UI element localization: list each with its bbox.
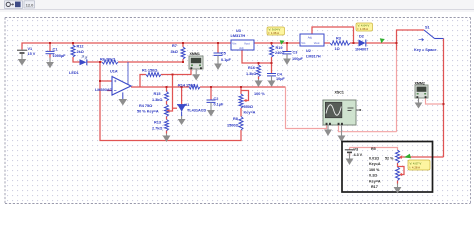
resistor R7 (171, 44, 186, 59)
svg-text:TL431ACD: TL431ACD (187, 108, 206, 112)
wire V3 bottom lead (349, 153, 351, 157)
op-amp U1A (95, 62, 131, 99)
wire R19 240ohm leads (271, 43, 273, 45)
resistor R6 (100, 58, 118, 65)
svg-text:R4 75Ω: R4 75Ω (139, 104, 152, 108)
resistor R14 (in rail) (178, 83, 200, 89)
svg-text:U3: U3 (236, 29, 241, 33)
ground arrow under C3 (283, 54, 291, 65)
wire scope channel A branch (286, 87, 327, 129)
resistor R3 (330, 37, 350, 52)
potentiometer R5 (369, 147, 400, 166)
ground under V1 (18, 54, 27, 66)
capacitor C2 (207, 97, 224, 107)
svg-text:C5: C5 (221, 52, 226, 56)
svg-text:2kΩ: 2kΩ (77, 50, 84, 54)
regulator U2 LM317H (300, 34, 324, 59)
svg-text:100µF: 100µF (292, 57, 304, 61)
ground arrow under TL431 (178, 116, 186, 125)
wire R5 to R17 link (397, 163, 399, 167)
battery V3 (345, 148, 363, 157)
regulator U3 LM317H (231, 29, 255, 50)
switch S1 (414, 26, 444, 53)
svg-text:D2: D2 (359, 35, 364, 39)
svg-text:4.3 V: 4.3 V (354, 153, 363, 157)
capacitor C4 (267, 72, 285, 81)
oscilloscope XSC1 (323, 91, 361, 126)
grid dots (decorative) (6, 19, 470, 203)
svg-text:I: 1.06 A: I: 1.06 A (358, 27, 369, 31)
svg-text:LM317H: LM317H (231, 34, 246, 38)
wire divider chain R15/R4/R13 (166, 87, 168, 92)
capacitor C1 (46, 48, 67, 59)
schematic sheet dashed border (5, 18, 471, 204)
wire top supply rail V1 to U3 Vin (22, 43, 231, 50)
svg-text:R5: R5 (371, 147, 376, 151)
svg-text:Key=A: Key=A (369, 179, 381, 183)
svg-text:V1: V1 (28, 47, 33, 51)
svg-text:R12: R12 (77, 45, 84, 49)
ground arrow under R16 (255, 79, 263, 87)
svg-text:C3: C3 (293, 51, 298, 55)
wire node B riser (D2 node down to scope B) (396, 43, 398, 50)
svg-text:R17: R17 (371, 185, 378, 189)
capacitor C5 (214, 52, 232, 63)
svg-text:Adj: Adj (239, 46, 243, 50)
junction dots (49, 42, 51, 44)
svg-text:R13: R13 (154, 121, 161, 125)
svg-text:C1: C1 (53, 48, 58, 52)
svg-text:1.3kΩ: 1.3kΩ (246, 72, 256, 76)
wire switch S1 output drop to load (443, 39, 445, 158)
battery V1 (17, 47, 36, 56)
svg-text:1.3kΩ: 1.3kΩ (152, 98, 162, 102)
svg-text:XSC1: XSC1 (335, 91, 344, 95)
wire rail U3 Vout to U2 Vin (254, 42, 300, 44)
wire R17 bottom lead (397, 181, 399, 184)
wire C3 lead (286, 43, 288, 51)
svg-text:0.01Ω: 0.01Ω (369, 157, 379, 161)
ground under R13 chain (163, 134, 171, 143)
svg-text:I: 4.28 A: I: 4.28 A (410, 166, 421, 170)
multimeter XMM2 (415, 81, 429, 98)
ground arrow under V3 (346, 153, 354, 165)
wire C2 lead (210, 87, 212, 100)
ground arrow under XMM1 (192, 69, 200, 81)
wire U3 Adj rail (242, 50, 272, 63)
resistor R13 (152, 120, 169, 131)
svg-text:100 %: 100 % (369, 168, 380, 172)
svg-text:1N4007: 1N4007 (355, 48, 368, 52)
wire R17 rheostat loop (398, 167, 405, 175)
ground arrow under scope A (324, 125, 332, 136)
svg-text:C2: C2 (214, 97, 219, 101)
wire R1 feedback net (140, 75, 146, 88)
svg-text:V3: V3 (354, 148, 359, 152)
wire XMM1 plus terminal to R1 net (173, 69, 192, 75)
wire C5 lead (217, 43, 219, 53)
wire R6 to R7 node (118, 61, 183, 63)
svg-text:U1: U1 (185, 103, 190, 107)
resistor R16 (246, 65, 261, 77)
capacitor C3 (283, 51, 304, 61)
wire R12 leads and LED branch (72, 43, 74, 45)
svg-text:Key=A: Key=A (244, 110, 256, 114)
svg-text:R15: R15 (154, 92, 161, 96)
wire op-amp inverting input stub (107, 90, 112, 92)
measurement probe 1 (267, 27, 285, 45)
svg-text:2.7kΩ: 2.7kΩ (152, 127, 162, 131)
svg-text:15 V: 15 V (28, 52, 36, 56)
wire C1 leads (49, 43, 51, 51)
svg-text:LM393AD: LM393AD (95, 88, 113, 92)
potentiometer 550 ohm (239, 92, 265, 114)
svg-text:S1: S1 (425, 26, 430, 30)
resistor R19 240 ohm (270, 45, 285, 57)
LED1 (69, 56, 87, 75)
wire R3 leads (324, 42, 330, 44)
wire XMM2 branch (426, 98, 444, 104)
svg-text:Adj: Adj (308, 36, 312, 40)
svg-text:Key = Space: Key = Space (414, 48, 436, 52)
multimeter XMM1 (189, 52, 203, 69)
wire switch S1 input riser (397, 30, 425, 43)
wire R5 wiper to load node (401, 156, 444, 158)
svg-text:U2: U2 (306, 49, 311, 53)
measurement probe 2 (356, 23, 385, 43)
svg-text:10µF: 10µF (276, 77, 285, 81)
svg-text:Vin: Vin (232, 42, 236, 46)
svg-text:1Ω: 1Ω (335, 47, 340, 51)
ground arrow under C2 (207, 102, 215, 116)
ground arrow under C5 (214, 55, 222, 70)
wire R7 leads (182, 43, 184, 47)
resistor R8 (227, 117, 243, 131)
wire scope channel B branch (339, 123, 397, 132)
svg-text:R7: R7 (172, 44, 177, 48)
svg-text:0.1Ω: 0.1Ω (369, 174, 377, 178)
ground arrow under C4 (268, 76, 276, 87)
svg-text:12.0: 12.0 (26, 3, 35, 8)
resistor R1 (142, 69, 161, 77)
svg-text:Vout: Vout (244, 42, 250, 46)
ground arrow under scope B (338, 125, 346, 142)
wire op-amp non-inverting input (100, 80, 112, 82)
diode D2 (355, 35, 368, 52)
svg-text:0.1µF: 0.1µF (214, 103, 224, 107)
wire left return vertical and bottom rail (100, 62, 241, 141)
svg-text:Vout: Vout (314, 41, 320, 45)
svg-text:R8: R8 (233, 117, 238, 121)
wire TL431 cathode drop (181, 87, 183, 105)
ground under C1 (46, 58, 54, 69)
resistor R12 (71, 45, 84, 57)
svg-text:1000µF: 1000µF (53, 54, 67, 58)
svg-text:3kΩ: 3kΩ (171, 50, 178, 54)
wire output rail (op-amp to scope branch) (131, 86, 189, 88)
ground arrow under R17 (394, 184, 402, 194)
svg-text:R3: R3 (336, 37, 341, 41)
svg-text:R19: R19 (276, 46, 283, 50)
potentiometer R17 (369, 167, 400, 189)
svg-text:R14 150Ω: R14 150Ω (178, 83, 195, 87)
wire R16 leads (258, 63, 260, 65)
ground arrow under U1A (119, 99, 128, 106)
svg-text:U1A: U1A (110, 70, 118, 74)
svg-text:LM317H: LM317H (306, 55, 321, 59)
potentiometer R4 (137, 104, 169, 116)
wire load box top rail (350, 148, 398, 151)
ground arrow under XMM2 (415, 98, 423, 109)
load sub-circuit box (342, 142, 433, 193)
svg-text:LED1: LED1 (69, 71, 79, 75)
measurement probe 3 (404, 154, 430, 170)
toolbar strip (0, 0, 474, 12)
svg-text:550Ω: 550Ω (244, 105, 253, 109)
wire U2 Adj feedback loop (312, 27, 354, 43)
svg-text:R1 150Ω: R1 150Ω (142, 69, 157, 73)
svg-text:R16: R16 (248, 66, 255, 70)
wire C4 lead (271, 63, 273, 73)
svg-text:Vin: Vin (301, 41, 305, 45)
svg-text:1500Ω: 1500Ω (227, 124, 239, 128)
svg-text:0.1µF: 0.1µF (221, 58, 231, 62)
svg-text:52 %: 52 % (385, 157, 394, 161)
svg-text:Key=A: Key=A (369, 162, 381, 166)
svg-text:100 %: 100 % (254, 92, 265, 96)
svg-text:I: 1.06 A: I: 1.06 A (269, 31, 280, 35)
svg-text:R6 30kΩ: R6 30kΩ (100, 58, 115, 62)
wire TL431 reference link (173, 107, 178, 109)
wire 550 ohm pot chain and loop (240, 87, 242, 94)
svg-text:XMM1: XMM1 (190, 52, 200, 56)
wire D2 net (354, 42, 359, 44)
shunt regulator U1 TL431ACD (177, 103, 206, 116)
svg-text:50 % Key=A: 50 % Key=A (137, 110, 159, 114)
resistor R15 (152, 92, 169, 103)
